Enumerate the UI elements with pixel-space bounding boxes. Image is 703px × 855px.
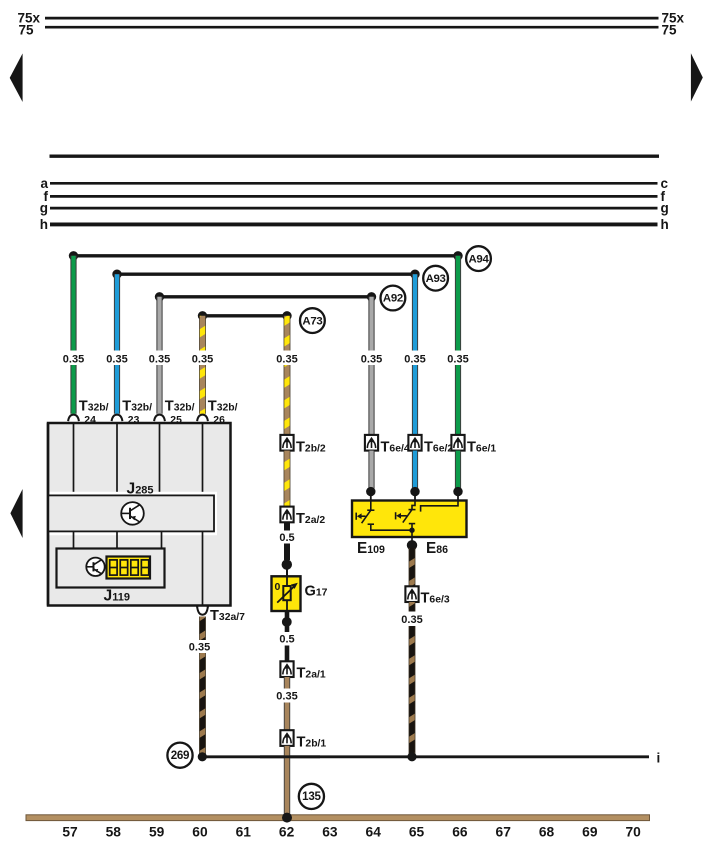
svg-text:62: 62: [279, 825, 295, 840]
svg-text:269: 269: [171, 749, 190, 762]
svg-text:57: 57: [62, 825, 78, 840]
svg-text:0.35: 0.35: [276, 353, 297, 365]
svg-text:25: 25: [170, 415, 182, 426]
svg-text:24: 24: [84, 415, 96, 426]
svg-text:64: 64: [366, 825, 382, 840]
svg-text:T32b/: T32b/: [122, 399, 152, 415]
svg-text:T32b/: T32b/: [165, 399, 195, 415]
svg-text:T2b/2: T2b/2: [296, 440, 326, 456]
svg-text:E109: E109: [357, 540, 385, 557]
svg-text:0.35: 0.35: [401, 614, 422, 626]
svg-text:58: 58: [106, 825, 122, 840]
svg-text:0.5: 0.5: [279, 634, 294, 646]
svg-text:61: 61: [236, 825, 252, 840]
svg-text:0.35: 0.35: [189, 642, 210, 654]
svg-text:0.35: 0.35: [149, 353, 170, 365]
svg-text:T2a/2: T2a/2: [296, 511, 325, 527]
svg-text:66: 66: [452, 825, 468, 840]
svg-text:T32b/: T32b/: [208, 399, 238, 415]
svg-text:59: 59: [149, 825, 165, 840]
svg-text:0: 0: [275, 581, 281, 593]
svg-text:0.35: 0.35: [447, 353, 468, 365]
svg-text:75: 75: [662, 22, 678, 37]
svg-text:h: h: [40, 217, 48, 232]
svg-text:0.35: 0.35: [192, 353, 213, 365]
svg-text:E86: E86: [426, 540, 448, 557]
svg-text:0.35: 0.35: [276, 690, 297, 702]
svg-text:67: 67: [496, 825, 512, 840]
svg-text:68: 68: [539, 825, 555, 840]
svg-text:60: 60: [192, 825, 208, 840]
svg-text:A92: A92: [383, 293, 403, 305]
svg-text:T2b/1: T2b/1: [297, 735, 327, 751]
svg-text:T32a/7: T32a/7: [210, 608, 245, 624]
svg-text:h: h: [661, 217, 669, 232]
svg-text:135: 135: [302, 790, 321, 803]
svg-text:65: 65: [409, 825, 425, 840]
svg-text:g: g: [661, 201, 669, 216]
svg-text:A93: A93: [426, 273, 446, 285]
svg-text:63: 63: [322, 825, 338, 840]
svg-text:0.35: 0.35: [361, 353, 382, 365]
svg-text:23: 23: [128, 415, 140, 426]
svg-text:T6e/1: T6e/1: [467, 440, 496, 456]
svg-text:T6e/3: T6e/3: [421, 591, 450, 607]
svg-text:G17: G17: [305, 584, 328, 600]
svg-text:i: i: [657, 750, 661, 765]
svg-text:A73: A73: [302, 315, 322, 327]
svg-text:75: 75: [18, 22, 34, 37]
svg-text:T6e/4: T6e/4: [381, 440, 410, 456]
svg-text:0.35: 0.35: [404, 353, 425, 365]
svg-text:0.35: 0.35: [106, 353, 127, 365]
svg-text:69: 69: [582, 825, 598, 840]
svg-text:T6e/2: T6e/2: [424, 440, 453, 456]
svg-text:T32b/: T32b/: [79, 399, 109, 415]
svg-text:70: 70: [625, 825, 641, 840]
svg-text:26: 26: [213, 415, 225, 426]
svg-text:0.5: 0.5: [279, 532, 294, 544]
svg-text:A94: A94: [469, 253, 490, 265]
svg-text:T2a/1: T2a/1: [297, 666, 326, 682]
svg-text:g: g: [40, 201, 48, 216]
svg-text:0.35: 0.35: [63, 353, 84, 365]
